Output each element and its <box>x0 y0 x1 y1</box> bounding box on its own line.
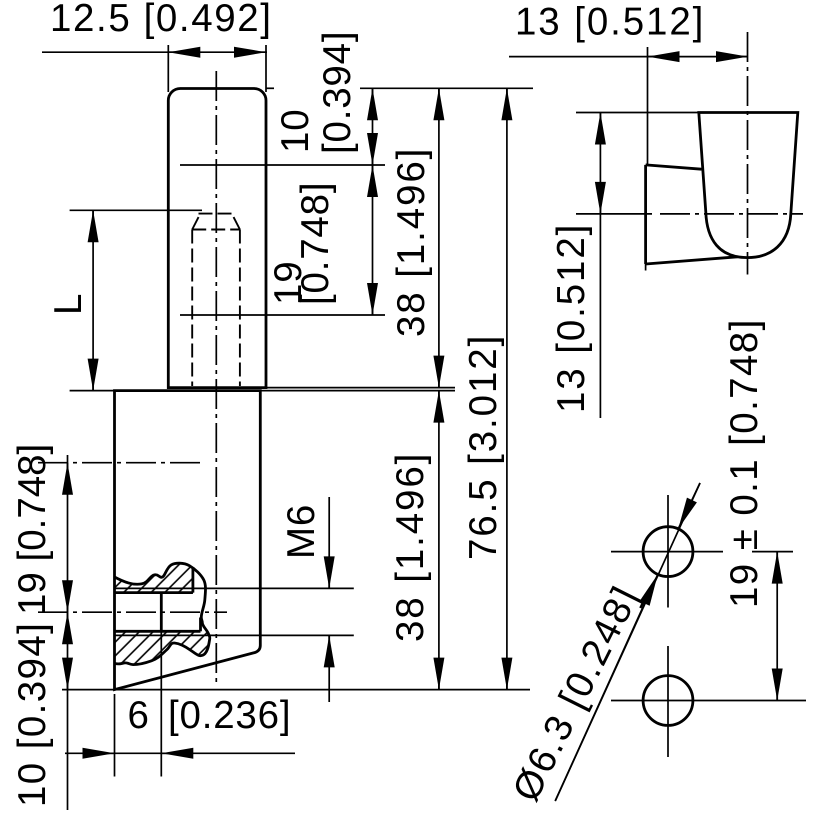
svg-text:13 [0.512]: 13 [0.512] <box>550 223 593 413</box>
dimension L <box>70 209 202 211</box>
svg-text:6: 6 <box>128 694 151 737</box>
dimension 38 [1.496] lower <box>438 391 440 690</box>
dimension chain 19 / 10 (left side) <box>67 455 69 810</box>
leader Ø6.3 [0.248] <box>555 483 700 801</box>
centerline M6 hole axis <box>38 611 227 613</box>
svg-text:19 [0.748]: 19 [0.748] <box>11 444 54 615</box>
label M6 with leader <box>328 497 330 588</box>
extension line y=165 <box>180 164 385 166</box>
extension line y=88 (pin top, right side, with gap for text) <box>266 87 274 89</box>
svg-text:L: L <box>47 293 90 315</box>
svg-text:13 [0.512]: 13 [0.512] <box>515 1 705 44</box>
dimension chain 10 / 19 (right of pin) <box>372 88 374 315</box>
top view: leaf step line <box>646 165 702 169</box>
top view: leaf left edge <box>644 165 647 264</box>
bottom extension line y=689.6 <box>62 689 530 691</box>
svg-text:[0.394]: [0.394] <box>316 31 359 154</box>
svg-text:10: 10 <box>274 109 317 153</box>
top view: leaf bottom edge <box>646 257 738 264</box>
svg-text:76.5 [3.012]: 76.5 [3.012] <box>462 334 505 560</box>
hole end vertical <box>191 567 194 592</box>
svg-text:10 [0.394]: 10 [0.394] <box>11 622 54 807</box>
thread depth divider <box>160 593 163 632</box>
top view: horizontal centerline <box>576 213 652 215</box>
hole 2 (lower) <box>643 676 693 726</box>
dimension 38 [1.496] upper <box>438 88 440 387</box>
dimension 6 [0.236] <box>114 694 116 777</box>
M6 hole section lines: thread major (thin) <box>115 587 354 589</box>
hatch lower region of break-out section <box>113 630 212 668</box>
body outline (front view, lower part with slanted bottom) <box>115 391 261 690</box>
extension lines at pin/body junction <box>266 387 455 389</box>
svg-text:19 ± 0.1 [0.748]: 19 ± 0.1 [0.748] <box>723 318 766 608</box>
top view: vertical centerline <box>747 32 749 275</box>
svg-text:M6: M6 <box>280 504 323 559</box>
svg-text:[0.748]: [0.748] <box>294 182 337 305</box>
hatch upper region of break-out section <box>113 556 212 668</box>
hidden thread lines in pin <box>191 230 193 387</box>
extension line y=315 <box>180 314 385 316</box>
break-out blob freehand boundary <box>115 563 210 664</box>
top view: knuckle outline <box>699 113 798 258</box>
pin outline (front view, Ø12.5 upper cylinder) <box>168 89 266 388</box>
dimension 76.5 [3.012] <box>506 88 508 689</box>
centerline pin vertical <box>215 71 217 683</box>
M6 hole minor/drill lines (thick) <box>115 591 193 594</box>
svg-text:38 [1.496]: 38 [1.496] <box>390 147 433 337</box>
centerline upper hole axis <box>38 462 202 464</box>
svg-text:[0.236]: [0.236] <box>168 694 291 737</box>
svg-text:12.5 [0.492]: 12.5 [0.492] <box>50 0 273 40</box>
hole notch vertical <box>199 618 202 632</box>
dimension 12.5 [0.492] <box>167 45 169 92</box>
dimension 13 [0.512] horizontal (top view) <box>647 47 649 164</box>
svg-text:38 [1.496]: 38 [1.496] <box>389 452 432 642</box>
dimension 19 ± 0.1 [0.748] (hole spacing) <box>752 551 793 553</box>
hole 1 (upper) <box>643 527 693 577</box>
dimension 13 [0.512] vertical (top view) <box>576 112 699 114</box>
